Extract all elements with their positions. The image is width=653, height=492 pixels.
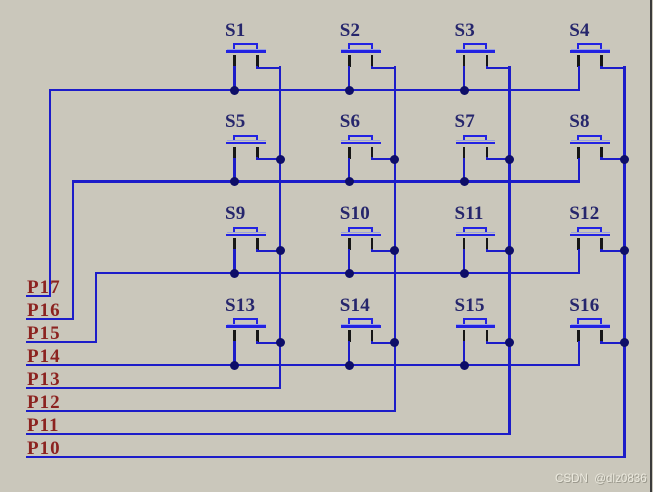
junction row 1 at S1 left pin <box>230 86 239 95</box>
wire S5 right pin to column 1 <box>256 157 258 160</box>
switch S1 pushbutton <box>0 0 1 1</box>
junction row 4 at S15 left pin <box>460 361 469 370</box>
node P17 label <box>27 278 61 297</box>
wire S15 left pin to row 4 <box>463 341 465 366</box>
wire S12 right pin to column 4 <box>600 249 602 252</box>
wire S6 right pin to column 2 <box>371 157 373 160</box>
junction column 4 at S8 right pin <box>620 155 629 164</box>
wire P12 horizontal <box>26 410 396 413</box>
junction column 2 at S10 right pin <box>390 246 399 255</box>
junction row 1 at S3 left pin <box>460 86 469 95</box>
wire S7 left pin to row 2 <box>463 158 465 183</box>
wire S14 right pin to column 2 <box>371 341 373 344</box>
switch S12 pushbutton <box>0 0 1 1</box>
wire S12 left pin to row 3 <box>578 249 580 274</box>
switch S10 pushbutton <box>0 0 1 1</box>
junction row 3 at S11 left pin <box>460 269 469 278</box>
junction column 2 at S6 right pin <box>390 155 399 164</box>
wire S10 left pin to row 3 <box>348 249 350 274</box>
switch S9 pushbutton <box>0 0 1 1</box>
wire vertical from row 1 down to P17 <box>49 89 52 297</box>
wire vertical from row 2 down to P16 <box>72 180 75 320</box>
junction column 3 at S15 right pin <box>505 338 514 347</box>
junction column 3 at S11 right pin <box>505 246 514 255</box>
junction column 4 at S12 right pin <box>620 246 629 255</box>
switch S13 pushbutton <box>0 0 1 1</box>
wire S8 right pin to column 4 <box>600 157 602 160</box>
wire S3 right pin to column 3 <box>486 66 488 69</box>
junction column 1 at S5 right pin <box>276 155 285 164</box>
node P12 label <box>27 393 61 412</box>
wire row 2 horizontal (net P16) <box>72 180 580 183</box>
node P14 label <box>27 347 61 366</box>
junction column 1 at S9 right pin <box>276 246 285 255</box>
wire P11 horizontal <box>26 433 511 436</box>
wire S15 right pin to column 3 <box>486 341 488 344</box>
wire S14 left pin to row 4 <box>348 341 350 366</box>
switch S15 pushbutton <box>0 0 1 1</box>
wire row 4 horizontal (net P14) <box>26 364 580 367</box>
node P10 label <box>27 439 61 458</box>
node P15 label <box>27 324 61 343</box>
wire S3 left pin to row 1 <box>463 66 465 91</box>
wire row 1 horizontal (net P17) <box>49 89 580 92</box>
wire S1 left pin to row 1 <box>233 66 235 91</box>
wire S11 left pin to row 3 <box>463 249 465 274</box>
junction column 3 at S7 right pin <box>505 155 514 164</box>
wire row 3 horizontal (net P15) <box>95 272 580 275</box>
junction row 2 at S6 left pin <box>345 177 354 186</box>
wire P16 horizontal <box>26 318 74 321</box>
junction row 1 at S2 left pin <box>345 86 354 95</box>
wire S4 left pin to row 1 <box>578 66 580 91</box>
wire column 3 vertical <box>508 66 511 435</box>
switch S4 pushbutton <box>0 0 1 1</box>
wire S13 right pin to column 1 <box>256 341 258 344</box>
wire S2 right pin to column 2 <box>371 66 373 69</box>
wire vertical from row 3 down to P15 <box>95 272 98 343</box>
wire P13 horizontal <box>26 387 281 390</box>
node P13 label <box>27 370 61 389</box>
wire column 4 vertical <box>623 66 626 458</box>
junction row 2 at S5 left pin <box>230 177 239 186</box>
switch S7 pushbutton <box>0 0 1 1</box>
wire S7 right pin to column 3 <box>486 157 488 160</box>
switch S8 pushbutton <box>0 0 1 1</box>
node P11 label <box>27 416 60 435</box>
junction column 1 at S13 right pin <box>276 338 285 347</box>
wire S9 left pin to row 3 <box>233 249 235 274</box>
wire S1 right pin to column 1 <box>256 66 258 69</box>
node P16 label <box>27 301 61 320</box>
wire P15 horizontal <box>26 341 97 344</box>
junction row 3 at S9 left pin <box>230 269 239 278</box>
junction row 2 at S7 left pin <box>460 177 469 186</box>
wire S13 left pin to row 4 <box>233 341 235 366</box>
wire S9 right pin to column 1 <box>256 249 258 252</box>
switch S5 pushbutton <box>0 0 1 1</box>
wire S11 right pin to column 3 <box>486 249 488 252</box>
switch S11 pushbutton <box>0 0 1 1</box>
junction row 3 at S10 left pin <box>345 269 354 278</box>
switch S16 pushbutton <box>0 0 1 1</box>
junction row 4 at S13 left pin <box>230 361 239 370</box>
switch S6 pushbutton <box>0 0 1 1</box>
wire P10 horizontal <box>26 456 626 459</box>
wire S16 left pin to row 4 <box>578 341 580 366</box>
watermark text <box>555 472 647 485</box>
wire S5 left pin to row 2 <box>233 158 235 183</box>
wire column 2 vertical <box>394 66 397 412</box>
switch S2 pushbutton <box>0 0 1 1</box>
wire S16 right pin to column 4 <box>600 341 602 344</box>
wire S6 left pin to row 2 <box>348 158 350 183</box>
switch S3 pushbutton <box>0 0 1 1</box>
junction row 4 at S14 left pin <box>345 361 354 370</box>
junction column 2 at S14 right pin <box>390 338 399 347</box>
wire column 1 vertical <box>279 66 282 389</box>
switch S14 pushbutton <box>0 0 1 1</box>
wire S8 left pin to row 2 <box>578 158 580 183</box>
junction column 4 at S16 right pin <box>620 338 629 347</box>
wire S4 right pin to column 4 <box>600 66 602 69</box>
wire S2 left pin to row 1 <box>348 66 350 91</box>
wire S10 right pin to column 2 <box>371 249 373 252</box>
wire P17 horizontal <box>26 295 51 298</box>
